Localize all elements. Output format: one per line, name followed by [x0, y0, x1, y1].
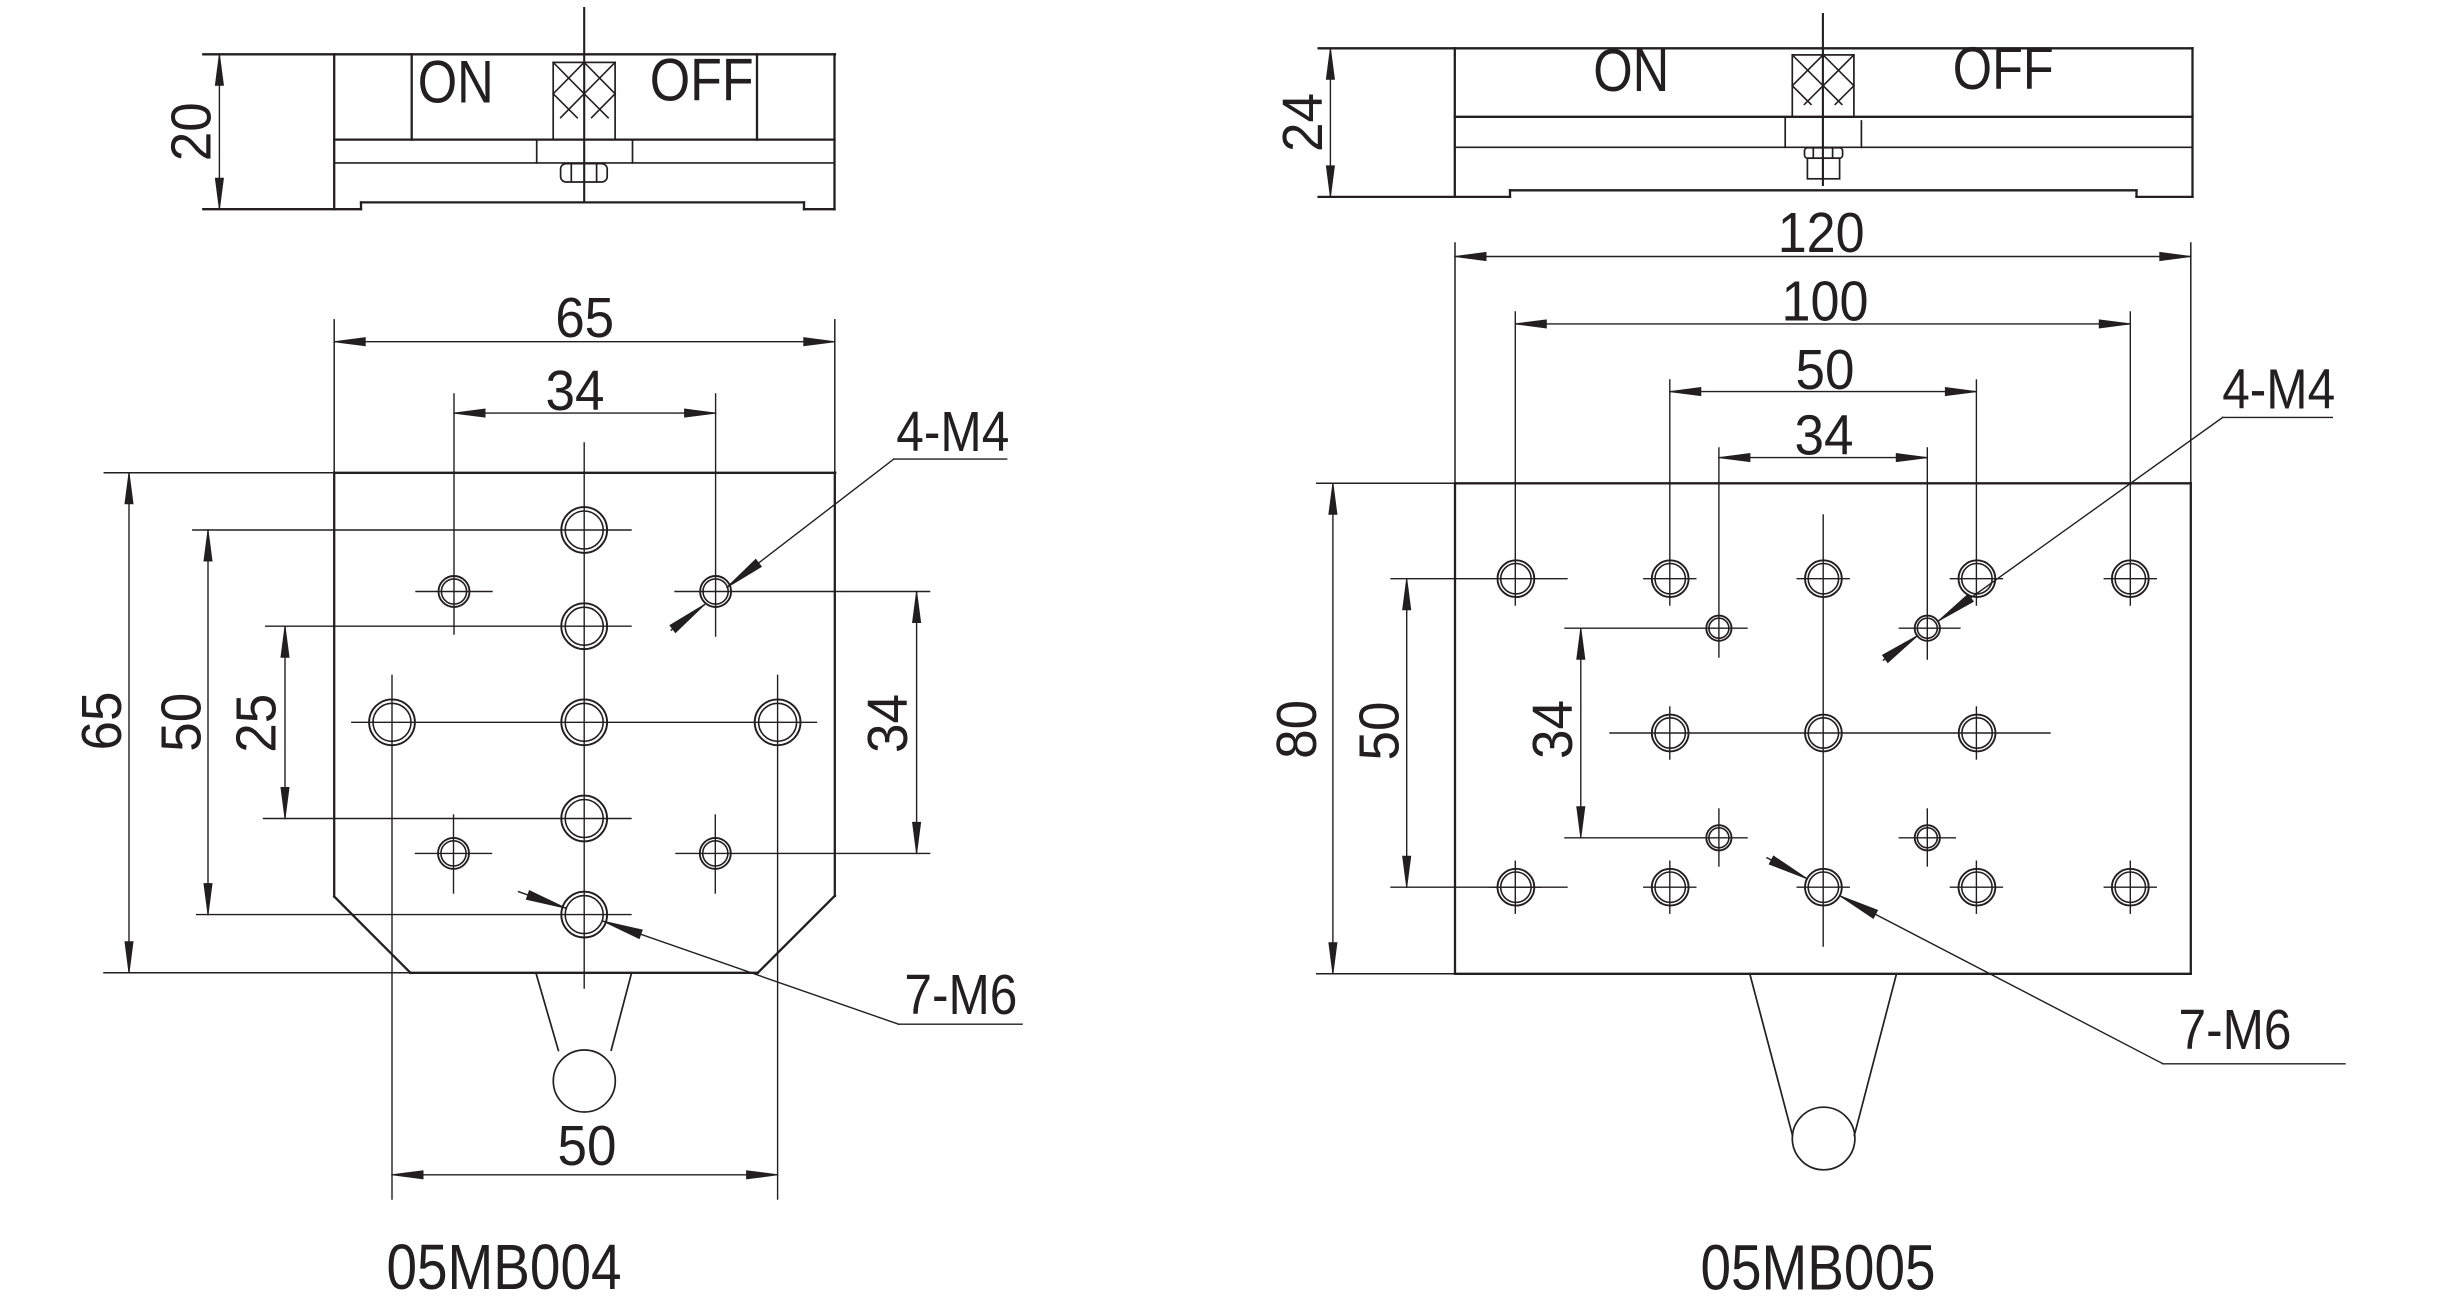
svg-text:34: 34 [546, 359, 605, 423]
hole M6 row5 center [561, 892, 607, 938]
hole M6 row4 center [561, 796, 607, 842]
shaft centerline left [583, 8, 585, 202]
hole M6 bottom row [2112, 869, 2149, 906]
hole M6 middle row [1652, 715, 1689, 752]
ext 34 right top / crosshair M4 TR [675, 591, 930, 593]
hole M6 top row [1805, 560, 1842, 597]
right side view left edge [1454, 48, 1456, 197]
crosshair bottom row h [1950, 886, 2002, 888]
left M6 vertical + 50 bottom ext [391, 675, 393, 1199]
crosshair M4 BR vertical [714, 815, 716, 893]
hole M6 top row [1959, 560, 1996, 597]
left side view ON cell divider [411, 54, 413, 139]
svg-text:120: 120 [1778, 201, 1865, 265]
hole M6 top row [1652, 560, 1689, 597]
left side view OFF cell divider [756, 54, 758, 139]
ext/crosshair M4 TR vertical [715, 394, 717, 636]
left side view recess right step [803, 202, 805, 209]
ext 100 left / v-crosshair [1514, 312, 1516, 605]
ext 50 right / v-crosshair [1975, 380, 1977, 605]
knob crosshatch right [1792, 55, 1854, 105]
left side view top edge [203, 53, 835, 55]
svg-text:34: 34 [1795, 404, 1854, 468]
dim 20 line [215, 54, 223, 209]
svg-text:34: 34 [856, 694, 920, 753]
hole M6 row2 center [561, 603, 607, 649]
hole M4 top-right [700, 576, 731, 607]
crosshair bottom row h [2104, 886, 2156, 888]
plate top edge ext left [104, 472, 334, 474]
knob crosshatch left [553, 62, 615, 117]
crosshair M4 BL v [1718, 809, 1720, 866]
left side view bottom recess line [361, 201, 804, 203]
ext 34v top / M4 crosshair [1565, 627, 1747, 629]
right center column centerline [1822, 515, 1824, 946]
crosshair bottom-right v [2129, 861, 2131, 913]
right plate top ext [1317, 482, 1455, 484]
crosshair bottom row v2 [1669, 861, 1671, 913]
dim 34 top line [454, 409, 716, 417]
svg-text:50: 50 [1348, 702, 1412, 761]
switch knob left [553, 62, 615, 139]
center column centerline [583, 443, 585, 988]
ext 50v bottom / crosshair [1391, 886, 1567, 888]
collar right drawing right wall [1860, 121, 1862, 147]
lever knob circle right [1792, 1107, 1855, 1170]
hole M6 bottom row [1498, 869, 1535, 906]
svg-text:65: 65 [555, 286, 614, 350]
right side view bottom left foot [1319, 196, 1510, 198]
dim 25 line [281, 626, 289, 818]
nut right [1805, 148, 1843, 179]
ext 25 bottom / crosshair M6 row4 [264, 818, 632, 820]
crosshair top row h [1644, 578, 1696, 580]
dim 34 right-vert line [1577, 628, 1585, 838]
hole M4 top-left [439, 576, 470, 607]
65ext left [333, 320, 335, 473]
hole M6 middle row [1959, 715, 1996, 752]
right lever right side [1854, 974, 1896, 1136]
right plate bottom edge [1455, 973, 2191, 975]
collar right drawing left wall [1784, 117, 1786, 148]
nut left [561, 164, 608, 182]
svg-text:05MB004: 05MB004 [387, 1231, 622, 1303]
svg-text:OFF: OFF [1953, 35, 2054, 102]
crosshair M4 BR h [1899, 837, 1955, 839]
dim 34 right-top line [1719, 454, 1927, 462]
svg-text:7-M6: 7-M6 [2179, 998, 2292, 1062]
left side view recess left step [360, 202, 362, 209]
projection left [1454, 243, 1456, 483]
svg-text:34: 34 [1521, 700, 1585, 759]
hole M4 bottom-left [438, 838, 469, 869]
ext/crosshair M4 TL vertical [453, 394, 455, 634]
svg-text:100: 100 [1782, 270, 1869, 334]
crosshair top row h [1797, 578, 1849, 580]
dim 34 right line [913, 592, 921, 854]
svg-text:80: 80 [1265, 700, 1329, 759]
hole M6 middle right [755, 699, 801, 745]
left side view bottom right foot [804, 208, 835, 210]
hole M4 bottom-right [700, 838, 731, 869]
right side view top edge [1319, 47, 2193, 49]
projection right [2190, 243, 2192, 483]
left side view right edge [833, 54, 835, 209]
dim 50 right-top line [1670, 388, 1977, 396]
svg-text:05MB005: 05MB005 [1701, 1231, 1936, 1303]
callout 7-M6 left [519, 891, 1023, 1024]
svg-text:4-M4: 4-M4 [896, 400, 1009, 464]
svg-text:24: 24 [1271, 93, 1335, 152]
hole M4 right TL [1706, 616, 1731, 641]
right lever left side [1750, 974, 1793, 1136]
hole M4 right BR [1915, 825, 1940, 850]
left side view band bottom line [334, 138, 834, 140]
crosshair bottom row h [1797, 886, 1849, 888]
switch knob right [1792, 55, 1854, 117]
plate left edge [333, 473, 335, 897]
plate right edge [834, 473, 836, 896]
right M6 vertical + 50 bottom ext [777, 675, 779, 1199]
svg-text:65: 65 [70, 692, 134, 751]
right side view bottom right foot [2137, 196, 2193, 198]
hole M6 middle row [1805, 715, 1842, 752]
plate chamfer bottom-right [758, 896, 835, 973]
svg-text:50: 50 [1796, 338, 1855, 402]
right recess right step [2135, 190, 2137, 197]
plate chamfer bottom-left [334, 897, 410, 973]
dim 65 top line [334, 338, 835, 346]
collar right wall [632, 140, 634, 163]
hole M6 row1 center [561, 507, 607, 553]
crosshair bottom row h [1489, 886, 1541, 888]
hole M6 top row [2112, 560, 2149, 597]
callout 7-M6 right [1767, 856, 2345, 1064]
callout 4-M4 left [670, 459, 1007, 632]
shaft centerline right [1822, 14, 1824, 185]
crosshair M4 BL horizontal [416, 852, 492, 854]
crosshair top row h [2104, 578, 2156, 580]
right lower line [1455, 146, 2193, 148]
crosshair bottom-left v [1514, 861, 1516, 913]
crosshair M4 BR v [1926, 809, 1928, 866]
ext 34 left / M4 vertical [1718, 448, 1720, 657]
collar left wall [536, 140, 538, 163]
hole M6 bottom row [1805, 869, 1842, 906]
dim 120 line [1455, 253, 2191, 261]
dim 24 line [1326, 48, 1334, 197]
ext 50 left / v-crosshair [1669, 380, 1671, 605]
plate top edge [334, 472, 835, 474]
ext 34 right / M4 vertical [1926, 448, 1928, 659]
crosshair M4 BL vertical [453, 815, 455, 893]
right plate right edge [2190, 483, 2192, 974]
ext 50 bottom / crosshair M6 row5 [197, 914, 631, 916]
lever knob circle left [553, 1050, 615, 1112]
svg-text:ON: ON [418, 49, 494, 116]
dim 80 line [1329, 483, 1337, 974]
right recess left step [1509, 190, 1511, 197]
crosshair M4 TR h [1899, 627, 1960, 629]
crosshair top row h [1950, 578, 2002, 580]
left side view bottom left foot [203, 208, 361, 210]
right plate bottom ext [1317, 973, 1455, 975]
left side view lower line [334, 162, 834, 164]
svg-text:OFF: OFF [650, 47, 754, 114]
right band bottom line [1455, 116, 2193, 118]
dim 50 right-vert line [1403, 579, 1411, 888]
dim 50 left line [204, 530, 212, 915]
ext 50 top / crosshair M6 row1 [193, 529, 631, 531]
right plate left edge [1454, 483, 1456, 974]
callout 4-M4 right [1883, 417, 2333, 662]
hole M6 center [561, 699, 607, 745]
hole M6 bottom row [1959, 869, 1996, 906]
right side view right edge [2191, 48, 2193, 197]
hole M4 right TR [1915, 616, 1940, 641]
svg-text:20: 20 [160, 102, 224, 161]
hole M6 top row [1498, 560, 1535, 597]
svg-text:4-M4: 4-M4 [2222, 358, 2335, 422]
crosshair bottom row h [1644, 886, 1696, 888]
dim 65 left line [125, 473, 133, 973]
crosshair M4 TL horizontal [416, 591, 492, 593]
svg-text:50: 50 [150, 693, 214, 752]
svg-text:7-M6: 7-M6 [904, 963, 1017, 1027]
middle row centerline [352, 721, 817, 723]
ext 34v bottom / M4 crosshair [1565, 837, 1747, 839]
plate bottom edge [410, 972, 757, 974]
dim 50 bottom line [392, 1171, 778, 1179]
hole M4 right BL [1706, 825, 1731, 850]
hole M6 bottom row [1652, 869, 1689, 906]
right side view recess line [1510, 189, 2137, 191]
ext 100 right / v-crosshair [2129, 312, 2131, 605]
dim 100 line [1515, 320, 2130, 328]
ext 25 top / crosshair M6 row2 [266, 625, 631, 627]
65ext right [834, 320, 836, 473]
left side view internal divider [333, 54, 335, 209]
crosshair mid-left v [1669, 707, 1671, 759]
crosshair bottom row v4 [1975, 861, 1977, 913]
right middle row centerline [1610, 732, 2050, 734]
lever right side [611, 973, 631, 1050]
crosshair mid-right v [1975, 707, 1977, 759]
svg-text:ON: ON [1593, 37, 1669, 104]
hole M6 middle left [369, 699, 415, 745]
lever left side [536, 973, 559, 1051]
ext 34 right bottom / crosshair M4 BR [676, 852, 930, 854]
svg-text:50: 50 [558, 1114, 617, 1178]
ext 50v top / crosshair [1391, 578, 1567, 580]
right plate top edge [1455, 482, 2191, 484]
svg-text:25: 25 [225, 694, 289, 753]
plate bottom ext left [104, 972, 410, 974]
